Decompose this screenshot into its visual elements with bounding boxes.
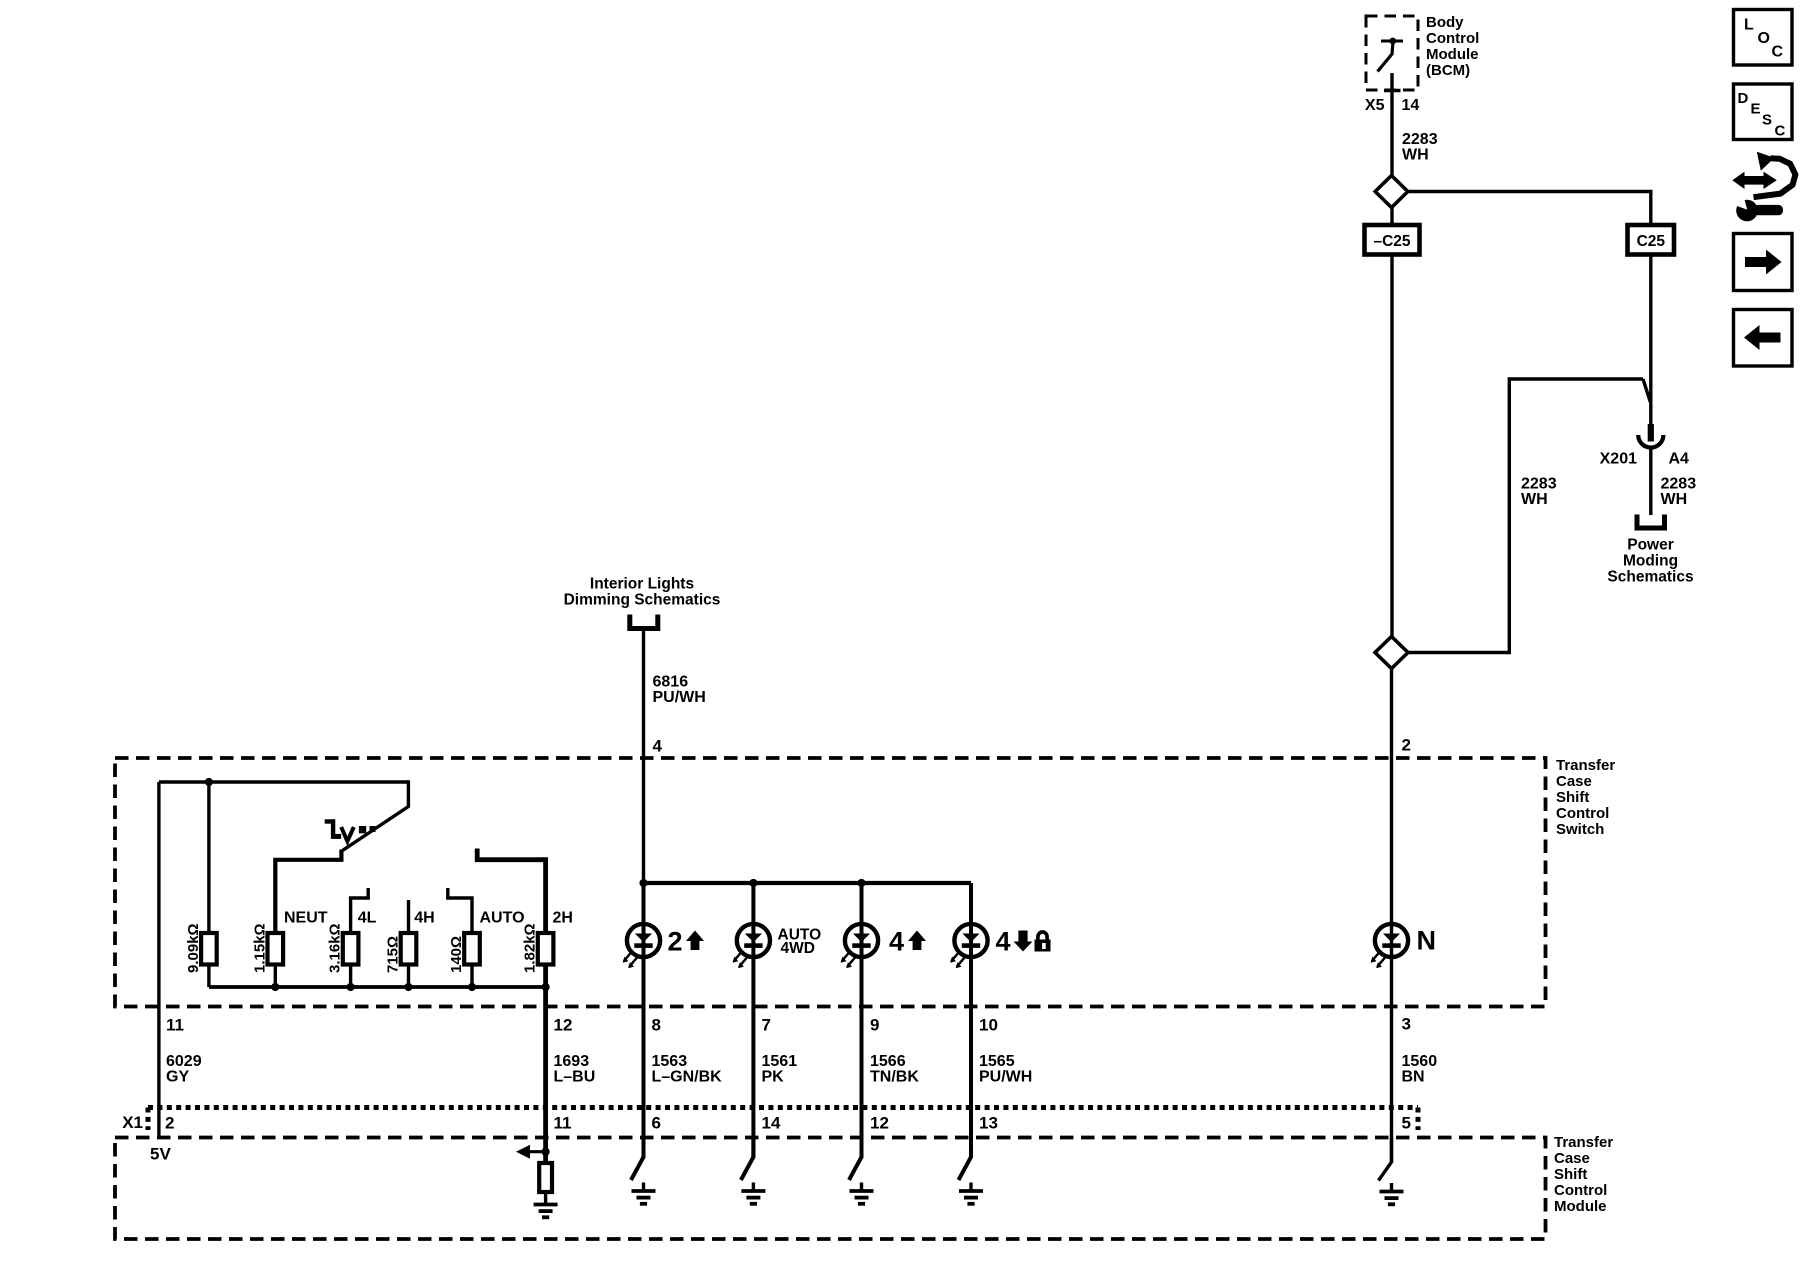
contact 4H wire bbox=[407, 900, 410, 933]
svg-text:14: 14 bbox=[1402, 97, 1420, 114]
switch top feed wire bbox=[159, 780, 409, 783]
wire 2283 WH from BCM bbox=[1390, 73, 1393, 176]
svg-text:1.82kΩ: 1.82kΩ bbox=[522, 923, 539, 973]
svg-text:WH: WH bbox=[1521, 491, 1548, 508]
svg-text:L–BU: L–BU bbox=[554, 1069, 596, 1086]
svg-text:E: E bbox=[1751, 101, 1761, 118]
svg-text:1.15kΩ: 1.15kΩ bbox=[251, 923, 268, 973]
2H sense wire to module (pin 12 / pin 11) bbox=[543, 987, 548, 1163]
svg-text:1693: 1693 bbox=[554, 1053, 590, 1070]
svg-text:4WD: 4WD bbox=[781, 940, 815, 957]
Interior Lights Dimming Schematics text bbox=[564, 576, 721, 609]
svg-text:–C25: –C25 bbox=[1373, 233, 1410, 250]
lamp 2HI wire bbox=[642, 883, 646, 1158]
svg-text:Control: Control bbox=[1554, 1182, 1607, 1199]
wire label 2283 WH bbox=[1402, 131, 1438, 164]
svg-text:Transfer: Transfer bbox=[1554, 1134, 1613, 1151]
resistor R 140 column bbox=[464, 933, 480, 987]
wire 6816 PU/WH bbox=[642, 629, 645, 884]
svg-text:4L: 4L bbox=[358, 910, 377, 927]
wiper position arrow glyph bbox=[325, 819, 376, 841]
svg-text:X5: X5 bbox=[1365, 97, 1385, 114]
svg-text:12: 12 bbox=[554, 1016, 573, 1035]
svg-text:Body: Body bbox=[1426, 14, 1464, 31]
svg-text:2: 2 bbox=[668, 927, 683, 957]
5V supply wire (pin 11 to pin 2) bbox=[157, 782, 160, 1138]
module sense arrow bbox=[516, 1145, 550, 1159]
resistor R 1.15k column bbox=[268, 933, 284, 987]
LOC icon box bbox=[1734, 10, 1793, 66]
splice diamond (top) bbox=[1375, 176, 1408, 208]
svg-text:Control: Control bbox=[1426, 30, 1479, 47]
wire label 6816 PU/WH bbox=[653, 674, 706, 707]
svg-text:2H: 2H bbox=[553, 910, 573, 927]
resistor R 715 column bbox=[401, 933, 417, 987]
contact 4L wire bbox=[351, 888, 369, 933]
ground (2HI driver) bbox=[632, 1183, 656, 1204]
indicator LED AUTO 4WD bbox=[733, 924, 771, 968]
driver switch to ground (N) bbox=[1379, 1138, 1392, 1181]
wire label 1693 L-BU bbox=[554, 1053, 596, 1086]
jog wire from X201 up-left and over to lower diamond bbox=[1408, 379, 1650, 653]
svg-text:Module: Module bbox=[1426, 46, 1479, 63]
svg-text:NEUT: NEUT bbox=[284, 910, 328, 927]
indicator LED 4HI bbox=[841, 924, 879, 968]
Body Control Module (BCM) dashed box bbox=[1366, 16, 1418, 90]
lamp 4LO wire bbox=[969, 883, 973, 1158]
svg-text:Power: Power bbox=[1627, 537, 1674, 554]
wire label 2283 WH (left branch) bbox=[1521, 476, 1557, 509]
junction node on top feed bbox=[205, 778, 213, 786]
svg-text:Module: Module bbox=[1554, 1198, 1607, 1215]
driver switch to ground (AUTO 4WD) bbox=[741, 1138, 754, 1181]
BCM internal switch contact bbox=[1378, 38, 1404, 91]
resistor R 1.82k column bbox=[538, 933, 554, 987]
svg-text:14: 14 bbox=[762, 1114, 781, 1133]
svg-text:Schematics: Schematics bbox=[1607, 569, 1693, 586]
label 4 with down arrow and padlock bbox=[996, 927, 1051, 957]
svg-text:11: 11 bbox=[166, 1016, 184, 1035]
previous-page left arrow icon box bbox=[1734, 310, 1793, 367]
ground (4LO driver) bbox=[959, 1183, 983, 1204]
svg-text:6029: 6029 bbox=[166, 1053, 202, 1070]
svg-text:9.09kΩ: 9.09kΩ bbox=[185, 923, 202, 973]
svg-text:1563: 1563 bbox=[652, 1053, 688, 1070]
indicator LED 4LO lock bbox=[950, 924, 988, 968]
svg-text:2: 2 bbox=[165, 1114, 174, 1133]
wire from right C25 down to X201 connector bbox=[1649, 255, 1652, 426]
connector X201 socket cup bbox=[1638, 435, 1663, 448]
svg-text:O: O bbox=[1758, 30, 1770, 47]
wire label 1561 PK bbox=[762, 1053, 798, 1086]
svg-text:Transfer: Transfer bbox=[1556, 757, 1615, 774]
splice diamond (lower) bbox=[1375, 637, 1408, 669]
svg-text:1566: 1566 bbox=[870, 1053, 906, 1070]
ground (4HI driver) bbox=[850, 1183, 874, 1204]
wire from -C25 down to lower splice diamond bbox=[1390, 255, 1393, 638]
Transfer Case Shift Control Switch dashed box bbox=[115, 758, 1546, 1007]
driver switch to ground (4LO) bbox=[959, 1138, 972, 1181]
contact AUTO wire bbox=[448, 888, 472, 933]
svg-text:4: 4 bbox=[996, 927, 1011, 957]
next-page right arrow icon box bbox=[1734, 234, 1793, 291]
svg-text:Control: Control bbox=[1556, 805, 1609, 822]
svg-text:PK: PK bbox=[762, 1069, 785, 1086]
svg-text:TN/BK: TN/BK bbox=[870, 1069, 919, 1086]
ground (N driver) bbox=[1380, 1183, 1404, 1204]
label 4 with up arrow bbox=[889, 927, 926, 957]
Transfer Case Shift Control Module label bbox=[1554, 1134, 1613, 1215]
wire from diamond down to left C25 bbox=[1390, 208, 1393, 225]
svg-text:9: 9 bbox=[870, 1016, 879, 1035]
svg-text:1561: 1561 bbox=[762, 1053, 798, 1070]
driver switch to ground (2HI) bbox=[631, 1138, 644, 1181]
off-page bracket from Interior Lights bbox=[630, 615, 658, 629]
indicator LED N bbox=[1371, 924, 1409, 968]
svg-text:(BCM): (BCM) bbox=[1426, 62, 1470, 79]
svg-text:1565: 1565 bbox=[979, 1053, 1015, 1070]
svg-text:D: D bbox=[1738, 90, 1749, 107]
svg-text:5: 5 bbox=[1402, 1114, 1411, 1133]
svg-text:PU/WH: PU/WH bbox=[653, 689, 706, 706]
wire label 2283 WH (right branch) bbox=[1661, 476, 1697, 509]
svg-text:Shift: Shift bbox=[1556, 789, 1589, 806]
indicator LED 2HI bbox=[623, 924, 661, 968]
svg-text:PU/WH: PU/WH bbox=[979, 1069, 1032, 1086]
svg-text:4H: 4H bbox=[414, 910, 434, 927]
lamp AUTO 4WD wire bbox=[751, 883, 755, 1158]
svg-text:Shift: Shift bbox=[1554, 1166, 1587, 1183]
wire label 1565 PU/WH bbox=[979, 1053, 1032, 1086]
svg-text:Switch: Switch bbox=[1556, 821, 1604, 838]
resistor ladder bottom bus bbox=[209, 985, 546, 989]
wire label 6029 GY bbox=[166, 1053, 202, 1086]
svg-text:AUTO: AUTO bbox=[480, 910, 525, 927]
svg-text:11: 11 bbox=[554, 1114, 572, 1133]
svg-text:L: L bbox=[1744, 17, 1754, 34]
svg-text:Case: Case bbox=[1554, 1150, 1590, 1167]
svg-text:3: 3 bbox=[1402, 1015, 1411, 1034]
svg-text:A4: A4 bbox=[1669, 451, 1690, 468]
svg-text:N: N bbox=[1417, 926, 1437, 956]
diagnostic wrench/arrows icon bbox=[1728, 152, 1796, 222]
bus junction nodes bbox=[271, 983, 550, 991]
connector label X5 / pin 14 bbox=[1365, 97, 1419, 114]
wire label 1560 BN bbox=[1402, 1053, 1438, 1086]
svg-text:10: 10 bbox=[979, 1016, 998, 1035]
indicator lamp feed bus bbox=[644, 881, 972, 885]
DESC icon box bbox=[1734, 84, 1793, 140]
bus junction nodes (lamps) bbox=[639, 879, 865, 887]
svg-text:Moding: Moding bbox=[1623, 553, 1678, 570]
svg-text:5V: 5V bbox=[150, 1145, 171, 1164]
resistor R 3.16k column bbox=[343, 933, 359, 987]
svg-text:Interior Lights: Interior Lights bbox=[590, 576, 694, 593]
ground (module pull resistor) bbox=[534, 1192, 558, 1218]
Transfer Case Shift Control Switch label bbox=[1556, 757, 1615, 838]
svg-text:C25: C25 bbox=[1637, 233, 1666, 250]
rotary switch wiper arm bbox=[341, 780, 408, 851]
svg-text:140Ω: 140Ω bbox=[448, 936, 465, 973]
svg-text:C: C bbox=[1775, 123, 1786, 140]
svg-text:WH: WH bbox=[1661, 491, 1688, 508]
Transfer Case Shift Control Module dashed box bbox=[115, 1138, 1546, 1240]
off-page bracket to Power Moding Schematics bbox=[1637, 515, 1665, 529]
svg-text:1560: 1560 bbox=[1402, 1053, 1438, 1070]
svg-text:4: 4 bbox=[889, 927, 904, 957]
svg-text:6816: 6816 bbox=[653, 674, 689, 691]
label AUTO 4WD bbox=[778, 927, 822, 958]
labels X201 / A4 bbox=[1600, 451, 1689, 468]
svg-text:L–GN/BK: L–GN/BK bbox=[652, 1069, 723, 1086]
wire from diamond to right C25 bbox=[1408, 192, 1651, 225]
connector X1 dotted line bbox=[148, 1108, 1418, 1131]
Power Moding Schematics text bbox=[1607, 537, 1693, 586]
svg-text:2283: 2283 bbox=[1661, 476, 1697, 493]
BCM label text bbox=[1426, 14, 1479, 79]
ground (AUTO 4WD driver) bbox=[741, 1183, 765, 1204]
module pull resistor bbox=[539, 1163, 552, 1192]
svg-text:12: 12 bbox=[870, 1114, 889, 1133]
svg-text:13: 13 bbox=[979, 1114, 998, 1133]
indicator LED N wire bbox=[1390, 924, 1393, 1162]
svg-text:GY: GY bbox=[166, 1069, 189, 1086]
driver switch to ground (4HI) bbox=[849, 1138, 862, 1181]
svg-text:2283: 2283 bbox=[1402, 131, 1438, 148]
wire label 1563 L-GN/BK bbox=[652, 1053, 723, 1086]
label 2 with up arrow bbox=[668, 927, 705, 957]
svg-text:6: 6 bbox=[652, 1114, 661, 1133]
svg-text:715Ω: 715Ω bbox=[385, 936, 402, 973]
lamp 4HI wire bbox=[860, 883, 864, 1158]
svg-text:BN: BN bbox=[1402, 1069, 1425, 1086]
svg-text:8: 8 bbox=[652, 1016, 661, 1035]
svg-text:Case: Case bbox=[1556, 773, 1592, 790]
wire from lower diamond into switch box bbox=[1390, 669, 1393, 925]
svg-text:7: 7 bbox=[762, 1016, 771, 1035]
svg-text:2: 2 bbox=[1402, 736, 1411, 755]
connector X201 pin stub bbox=[1648, 424, 1654, 442]
inline connector C25 (right) bbox=[1628, 225, 1675, 255]
wire 2283 WH to Power Moding bbox=[1649, 449, 1652, 516]
svg-text:X201: X201 bbox=[1600, 451, 1637, 468]
svg-text:WH: WH bbox=[1402, 147, 1429, 164]
svg-text:C: C bbox=[1772, 44, 1784, 61]
svg-text:2283: 2283 bbox=[1521, 476, 1557, 493]
svg-text:3.16kΩ: 3.16kΩ bbox=[327, 923, 344, 973]
svg-text:S: S bbox=[1762, 112, 1772, 129]
svg-text:X1: X1 bbox=[122, 1113, 143, 1132]
contact NEUT wire bbox=[275, 850, 341, 934]
svg-text:4: 4 bbox=[653, 737, 663, 756]
wire label 1566 TN/BK bbox=[870, 1053, 919, 1086]
inline connector -C25 (left) bbox=[1365, 225, 1420, 255]
resistor R 9.09k column bbox=[201, 782, 217, 987]
contact 2H wire bbox=[477, 849, 545, 934]
svg-text:Dimming Schematics: Dimming Schematics bbox=[564, 592, 721, 609]
